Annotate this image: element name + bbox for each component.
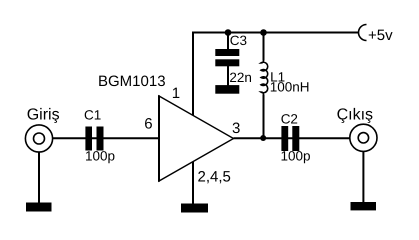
- svg-text:1: 1: [172, 85, 180, 102]
- svg-text:6: 6: [144, 115, 152, 132]
- svg-text:C1: C1: [84, 108, 101, 123]
- svg-text:22n: 22n: [229, 70, 252, 85]
- svg-text:Giriş: Giriş: [27, 107, 60, 124]
- svg-text:2,4,5: 2,4,5: [198, 169, 231, 186]
- svg-text:3: 3: [232, 120, 240, 137]
- svg-text:BGM1013: BGM1013: [98, 73, 166, 90]
- svg-text:+5v: +5v: [368, 27, 393, 44]
- svg-text:C2: C2: [281, 111, 298, 126]
- svg-text:100nH: 100nH: [270, 80, 310, 95]
- svg-text:Çıkış: Çıkış: [337, 106, 373, 123]
- svg-text:100p: 100p: [85, 148, 115, 163]
- svg-text:100p: 100p: [281, 148, 311, 163]
- svg-text:C3: C3: [230, 33, 247, 48]
